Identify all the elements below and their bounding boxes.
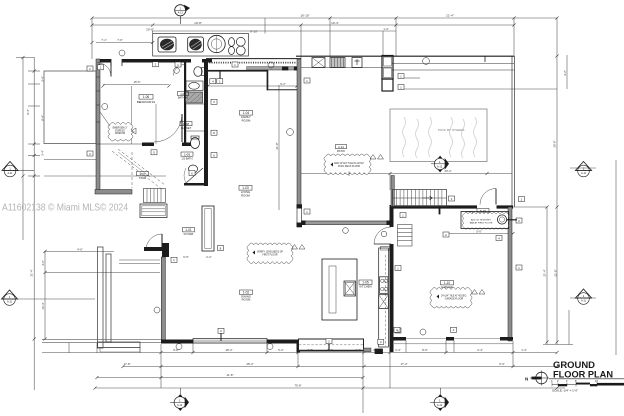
svg-text:ADD 12"x24" TILE IN 12'X12': ADD 12"x24" TILE IN 12'X12' [334, 162, 364, 165]
marker stem kitchen wall [219, 72, 221, 79]
svg-text:5'-8": 5'-8" [173, 348, 179, 352]
svg-text:BATH #1: BATH #1 [178, 95, 189, 99]
top wall over bath [202, 59, 212, 63]
north arrow [536, 372, 548, 384]
top wall left segment [96, 59, 111, 63]
pillar south [375, 349, 383, 354]
bottom section marker left [170, 388, 189, 411]
bedroom south wall segment A [142, 143, 154, 147]
svg-text:9'-10": 9'-10" [250, 29, 258, 33]
svg-text:A-11: A-11 [7, 301, 13, 304]
svg-text:5'-4": 5'-4" [499, 362, 505, 366]
svg-text:28'-8": 28'-8" [553, 140, 557, 147]
bottom extension stubs [69, 341, 513, 389]
svg-text:A-12: A-12 [177, 404, 183, 407]
double sink circles [229, 38, 235, 47]
fixture box top [352, 58, 362, 68]
room tag foyer [183, 228, 195, 232]
egress window cloud [100, 112, 136, 141]
scale bar [552, 383, 624, 385]
bedroom door arc [154, 114, 182, 142]
top wall mid segment [122, 59, 191, 63]
bottom wall east of window [267, 340, 298, 344]
circled symbols [102, 50, 430, 350]
kitchen pass line [268, 89, 297, 91]
patio ground line [300, 173, 512, 175]
room tag dining room [240, 290, 253, 294]
half bath sink [189, 165, 198, 173]
svg-text:17'-8": 17'-8" [123, 362, 130, 366]
svg-text:A11602138 © Miami MLS© 2024: A11602138 © Miami MLS© 2024 [2, 202, 128, 214]
kitchen east wall lower [390, 244, 394, 352]
svg-text:EMERGENCY: EMERGENCY [113, 128, 128, 130]
svg-text:POOL BY OTHERS: POOL BY OTHERS [438, 128, 464, 132]
svg-text:21'-8": 21'-8" [553, 269, 557, 276]
interior stair upper flight treads [143, 189, 165, 203]
bath toilet [194, 67, 202, 77]
room tag wet bar [477, 209, 489, 213]
grill hatch box top [330, 58, 345, 68]
patio screen wall right [511, 56, 513, 207]
svg-text:19'-8": 19'-8" [194, 21, 202, 25]
marker stems [220, 333, 222, 341]
wall pilaster family room NE [282, 66, 288, 70]
svg-text:5'-6": 5'-6" [476, 230, 482, 234]
right elevation marker lower [575, 289, 591, 304]
svg-text:SCALE: 1/4" = 1'-0": SCALE: 1/4" = 1'-0" [552, 389, 578, 393]
svg-text:15'-6": 15'-6" [133, 80, 140, 84]
room tag closet [180, 122, 192, 126]
family room east wall hatched [297, 59, 301, 205]
svg-text:75'-8": 75'-8" [294, 384, 301, 388]
svg-text:21'-4": 21'-4" [543, 269, 547, 276]
exterior left wall (hatched) [96, 59, 100, 192]
pool [390, 109, 487, 162]
top dimension line 1 [92, 17, 557, 19]
garage south wall stub A [390, 337, 406, 341]
top wall right of family room thin lines [296, 55, 514, 57]
foyer entry door arc [146, 234, 162, 250]
kitchen rear wall thin line [206, 58, 301, 60]
dining bay bottom [98, 342, 141, 348]
kitchen screen dotted row [207, 62, 296, 64]
wet bar cloud [461, 212, 517, 230]
svg-text:3'-4": 3'-4" [41, 76, 45, 82]
svg-text:EGRESS: EGRESS [115, 130, 125, 132]
stair west cheek wall [391, 176, 394, 207]
room tag bath1 [178, 92, 189, 96]
svg-text:7'-6": 7'-6" [117, 38, 123, 42]
kitchen top counter [153, 34, 249, 57]
top dimension line 3 [152, 30, 396, 32]
svg-text:ROOM: ROOM [241, 193, 250, 197]
room tag garage [441, 281, 454, 285]
stair hall south wall hatched [95, 190, 132, 195]
svg-text:16': 16' [595, 380, 599, 383]
kitchen island [322, 259, 357, 320]
dining bay wall inner [106, 254, 111, 342]
left dimension verticals [22, 57, 24, 240]
svg-text:23'-4": 23'-4" [444, 169, 451, 173]
svg-text:A-12: A-12 [178, 12, 184, 15]
svg-text:1-09: 1-09 [184, 153, 190, 157]
bottom dimension lines [42, 352, 557, 354]
svg-text:9'-2": 9'-2" [280, 82, 286, 86]
svg-text:ADD 42" HIGH WET: ADD 42" HIGH WET [471, 219, 492, 222]
wet bar counter outline over cloud [461, 212, 509, 229]
svg-text:8'-0": 8'-0" [422, 348, 428, 352]
nook south wall hatched piece [364, 348, 372, 352]
svg-text:6'-5": 6'-5" [183, 255, 189, 259]
svg-text:ROOM: ROOM [242, 118, 251, 122]
section marker top [175, 5, 190, 24]
svg-text:1-05: 1-05 [180, 92, 186, 96]
svg-text:1'-4": 1'-4" [521, 348, 527, 352]
svg-text:KITCHEN: KITCHEN [359, 285, 371, 289]
bedroom/bath partition wall [184, 62, 186, 146]
svg-text:8'-4": 8'-4" [41, 115, 45, 121]
kitchen half wall return [267, 70, 269, 91]
porch outline upper left [44, 71, 96, 144]
refrigerator [382, 56, 393, 80]
sliding glass door living room north [302, 221, 391, 225]
stair cheek wall stub [439, 205, 441, 214]
foyer west wall jamb [162, 243, 169, 257]
title underline [549, 378, 624, 380]
garage east wall hatched [508, 207, 512, 341]
nook window seat counter [299, 339, 364, 351]
svg-text:21'-8": 21'-8" [275, 142, 279, 149]
left elevation marker [2, 290, 18, 305]
far left porch edge lines [42, 338, 161, 340]
bedroom south wall thin [96, 143, 142, 145]
svg-text:1/2 BATH: 1/2 BATH [181, 156, 192, 160]
bottom wall west segment [161, 340, 193, 344]
svg-text:6'-4": 6'-4" [327, 348, 333, 352]
bath vanity counter [186, 81, 203, 91]
interior stair landing block [140, 204, 167, 218]
bottom wall jog [297, 340, 301, 353]
svg-text:A-12: A-12 [437, 404, 443, 407]
room tag stair [137, 172, 149, 176]
svg-text:24"x24" TILE AT 45 DEG.: 24"x24" TILE AT 45 DEG. [441, 294, 467, 297]
svg-text:2'-4": 2'-4" [395, 348, 401, 352]
svg-text:21'-4": 21'-4" [446, 14, 454, 18]
bath east wall [204, 62, 208, 186]
pool section marker [431, 156, 449, 173]
svg-text:A-11: A-11 [581, 300, 587, 303]
svg-text:2'-4": 2'-4" [477, 348, 483, 352]
marker leader lines [17, 298, 95, 300]
room tag bedroom [139, 95, 153, 100]
bath door arc [174, 65, 185, 76]
top dimension line 2 [92, 24, 514, 26]
keynote boxes along walls [87, 62, 525, 345]
svg-text:BEDROOM #1: BEDROOM #1 [137, 100, 156, 104]
foyer west wall (hatched) [161, 257, 165, 341]
svg-text:FIRST FLOOR: FIRST FLOOR [262, 255, 277, 257]
svg-text:N: N [525, 377, 528, 382]
kitchen half wall front edge [206, 70, 268, 72]
svg-text:5'-2": 5'-2" [278, 348, 284, 352]
half bath door diagonal [186, 168, 203, 183]
svg-text:A-11: A-11 [7, 172, 13, 175]
left elevation marker upper [2, 162, 34, 177]
svg-text:GARAGE FLOOR: GARAGE FLOOR [445, 298, 464, 301]
kitchen east counter [379, 248, 389, 347]
bottom section marker right [430, 388, 449, 411]
interior dimension lines [103, 84, 169, 86]
svg-text:WINDOW: WINDOW [115, 133, 126, 135]
patio note cloud [324, 154, 384, 176]
sink appliance 1 [158, 37, 176, 52]
right elevation marker upper [575, 162, 591, 177]
svg-text:1'-4": 1'-4" [355, 348, 361, 352]
closet partition thin lines [131, 86, 133, 144]
svg-text:17'-4": 17'-4" [400, 362, 407, 366]
garage south wall stub C [500, 337, 513, 341]
svg-text:1-06: 1-06 [143, 95, 150, 99]
island sink X box [344, 281, 356, 296]
living room south window [193, 339, 267, 343]
wet bar sink circle over cloud [497, 215, 506, 224]
nook entry steps [398, 225, 413, 247]
svg-text:4'-2": 4'-2" [563, 70, 567, 76]
svg-text:CLOSET: CLOSET [181, 126, 192, 130]
toilet 1/2 bath [191, 138, 200, 149]
svg-text:9'-4": 9'-4" [26, 109, 30, 115]
garage top wall segment A [391, 205, 477, 208]
bath tub hatched [186, 92, 203, 103]
closet shelf line [187, 103, 205, 105]
svg-text:1'-4": 1'-4" [383, 27, 388, 31]
svg-text:28'-4": 28'-4" [246, 362, 253, 366]
svg-text:2'-4": 2'-4" [373, 348, 379, 352]
svg-text:ROOM: ROOM [242, 298, 251, 302]
room tag kitchen [359, 280, 372, 284]
svg-text:1-08: 1-08 [183, 122, 189, 126]
svg-text:18'-4": 18'-4" [225, 348, 232, 352]
svg-text:1-07: 1-07 [139, 172, 145, 176]
svg-text:2'-8": 2'-8" [307, 348, 313, 352]
svg-text:4'-6": 4'-6" [41, 260, 45, 266]
svg-text:A-11: A-11 [581, 172, 587, 175]
svg-text:3'-4": 3'-4" [41, 150, 45, 156]
half bath south wall [184, 183, 208, 186]
fixture box at kitchen door [381, 247, 390, 251]
svg-text:POOL DECK FLOOR: POOL DECK FLOOR [338, 166, 360, 168]
room tag living room [239, 186, 252, 191]
porch slab [100, 348, 140, 353]
stair dashed break lines [112, 151, 163, 190]
left wall joint ticks [96, 77, 100, 122]
front sidelight column [202, 206, 214, 251]
cooktop circle [208, 35, 225, 52]
range 4 burners [380, 277, 389, 294]
svg-text:10'-4": 10'-4" [41, 302, 45, 309]
svg-text:7'-1": 7'-1" [101, 38, 107, 42]
family room SE window column [297, 205, 302, 228]
sliding window track family room N [247, 67, 297, 70]
dining bay wall outer [98, 247, 104, 348]
room tag half bath [181, 152, 193, 156]
top dimension line 4 [96, 42, 153, 44]
svg-text:FOYER: FOYER [184, 232, 194, 236]
svg-text:20'-8": 20'-8" [146, 28, 154, 32]
svg-text:10'-4": 10'-4" [331, 21, 339, 25]
svg-text:2'-2": 2'-2" [206, 255, 212, 259]
svg-text:4'-6": 4'-6" [77, 247, 83, 251]
svg-text:BAR AT FIRST FLOOR: BAR AT FIRST FLOOR [470, 222, 493, 225]
patio exterior stair [393, 190, 447, 207]
patio bath door arc [480, 189, 496, 205]
room tag patio [336, 145, 347, 149]
svg-text:PATIO: PATIO [337, 149, 346, 153]
top extension stubs [91, 18, 93, 59]
pool bottom dim [389, 174, 391, 191]
garage south wall stub B [446, 337, 454, 341]
room tag family room [240, 111, 253, 116]
garage threshold line [394, 343, 513, 345]
right dimension verticals [556, 18, 558, 345]
svg-text:16'-10": 16'-10" [300, 13, 309, 17]
dining levelness cloud [247, 243, 305, 264]
dimension tick marks [21, 16, 558, 389]
garage door opening lines [406, 338, 446, 340]
garage floor cloud [430, 287, 485, 308]
kitchen east wall upper [390, 205, 394, 227]
sink appliance 2 [188, 37, 204, 52]
kitchen-garage door arc [374, 227, 391, 244]
counter X box [379, 295, 389, 309]
svg-text:STAIR: STAIR [139, 176, 147, 180]
svg-text:VERIFY LEVELNESS OF: VERIFY LEVELNESS OF [257, 251, 284, 253]
svg-text:A-12: A-12 [437, 165, 443, 168]
top wall door jamb ticks [110, 59, 112, 66]
bedroom south wall segment B [182, 143, 191, 147]
svg-text:31'-4": 31'-4" [30, 269, 34, 276]
bedroom entry door arc [97, 63, 111, 77]
svg-text:11'-8": 11'-8" [227, 373, 234, 377]
entry wall block [144, 247, 163, 251]
garage top wall segment B [497, 205, 514, 208]
window X box top [312, 58, 325, 68]
